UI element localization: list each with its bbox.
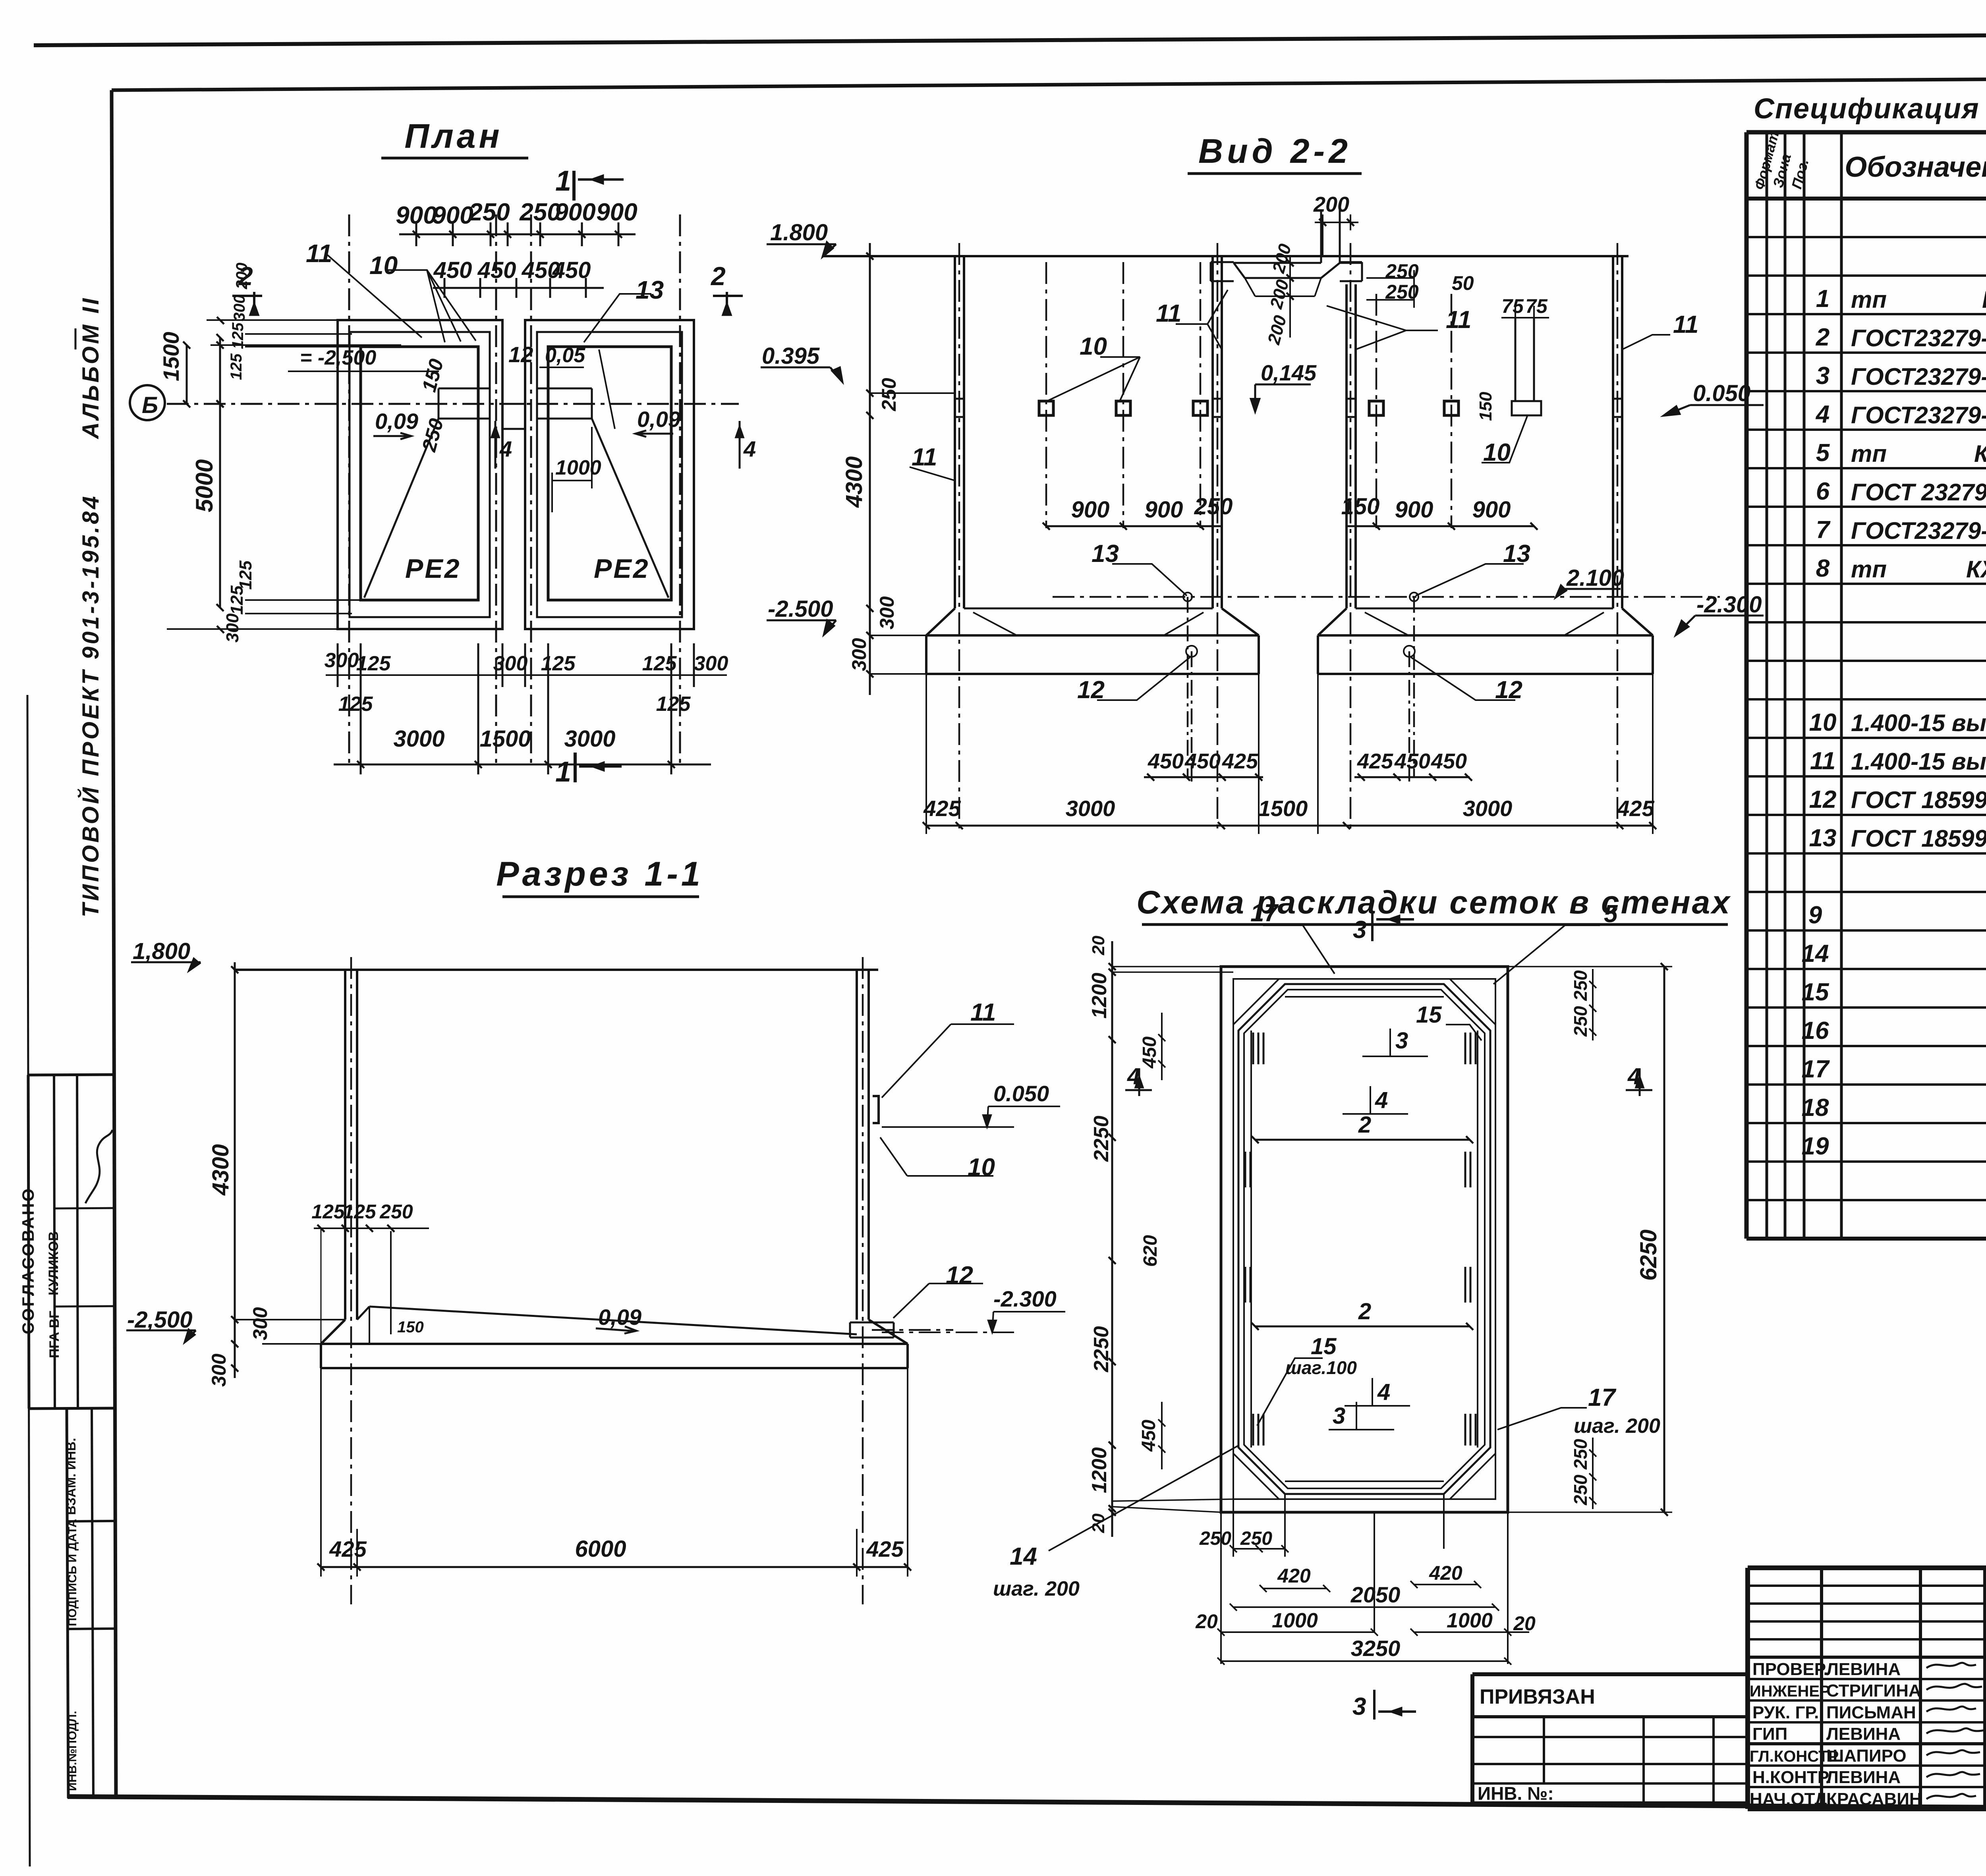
svg-text:2250: 2250 <box>1090 1116 1113 1162</box>
svg-text:Н.КОНТР.: Н.КОНТР. <box>1752 1768 1831 1787</box>
svg-text:КЖИ.С4: КЖИ.С4 <box>1982 286 1986 313</box>
svg-text:420: 420 <box>1277 1565 1311 1587</box>
svg-text:11: 11 <box>912 444 937 471</box>
svg-text:10: 10 <box>1080 333 1107 360</box>
svg-text:11: 11 <box>1673 311 1698 338</box>
svg-text:-2.300: -2.300 <box>1696 592 1762 618</box>
svg-text:620: 620 <box>1140 1235 1161 1267</box>
svg-text:ТИПОВОЙ ПРОЕКТ 901-3-195.84: ТИПОВОЙ ПРОЕКТ 901-3-195.84 <box>77 494 104 917</box>
svg-text:1,800: 1,800 <box>133 938 190 964</box>
svg-text:50: 50 <box>1452 272 1474 294</box>
svg-text:900: 900 <box>554 199 595 226</box>
svg-text:13: 13 <box>636 276 664 304</box>
svg-text:3000: 3000 <box>393 726 444 752</box>
svg-text:0,09: 0,09 <box>637 407 680 432</box>
svg-text:РЕ2: РЕ2 <box>594 554 650 584</box>
svg-text:425: 425 <box>329 1536 367 1561</box>
svg-text:1500: 1500 <box>158 332 184 381</box>
svg-text:900: 900 <box>1395 497 1433 523</box>
svg-text:ПОДПИСЬ И ДАТА: ПОДПИСЬ И ДАТА <box>66 1519 79 1626</box>
svg-text:20: 20 <box>1195 1610 1218 1633</box>
svg-text:ГОСТ23279-78: ГОСТ23279-78 <box>1851 402 1986 428</box>
svg-text:900: 900 <box>1145 497 1183 523</box>
svg-text:5: 5 <box>1816 439 1830 467</box>
svg-text:125: 125 <box>656 693 691 716</box>
svg-text:300: 300 <box>493 652 528 675</box>
svg-text:4: 4 <box>1627 1063 1640 1089</box>
svg-text:425: 425 <box>1222 749 1258 773</box>
svg-text:200: 200 <box>233 262 251 290</box>
svg-text:450: 450 <box>477 257 516 283</box>
svg-text:Вид 2-2: Вид 2-2 <box>1198 132 1352 170</box>
svg-text:20: 20 <box>1089 936 1108 955</box>
svg-text:450: 450 <box>1139 1036 1160 1069</box>
svg-text:450: 450 <box>433 257 472 283</box>
svg-text:ГОСТ 23279-78: ГОСТ 23279-78 <box>1851 479 1986 506</box>
svg-text:1500: 1500 <box>1258 796 1308 821</box>
svg-text:75: 75 <box>1525 295 1548 317</box>
svg-text:1000: 1000 <box>1447 1609 1493 1632</box>
svg-text:Схема раскладки сеток в стена: Схема раскладки сеток в стенах <box>1136 884 1731 921</box>
svg-text:12: 12 <box>946 1262 973 1289</box>
svg-text:300: 300 <box>876 596 898 629</box>
svg-text:-2.300: -2.300 <box>993 1286 1057 1311</box>
svg-text:0,145: 0,145 <box>1261 360 1317 385</box>
svg-text:300: 300 <box>694 652 728 675</box>
svg-text:шаг. 200: шаг. 200 <box>1574 1415 1660 1438</box>
svg-text:10: 10 <box>968 1154 995 1181</box>
svg-text:900: 900 <box>596 199 637 226</box>
svg-text:2: 2 <box>710 261 726 291</box>
svg-text:тп: тп <box>1851 556 1887 583</box>
svg-text:14: 14 <box>1802 940 1829 967</box>
svg-text:425: 425 <box>866 1536 904 1561</box>
svg-text:4: 4 <box>1127 1063 1140 1089</box>
svg-text:ШАПИРО: ШАПИРО <box>1826 1746 1907 1766</box>
svg-text:250: 250 <box>878 378 900 411</box>
svg-text:300: 300 <box>223 613 242 643</box>
svg-text:ПИСЬМАН: ПИСЬМАН <box>1826 1703 1916 1722</box>
svg-text:16: 16 <box>1802 1017 1829 1044</box>
svg-text:НАЧ.ОТД: НАЧ.ОТД <box>1750 1789 1827 1809</box>
svg-text:СОГЛАСОВАНО: СОГЛАСОВАНО <box>19 1187 37 1334</box>
svg-text:300: 300 <box>231 295 248 321</box>
svg-text:4: 4 <box>1815 401 1830 428</box>
svg-text:1: 1 <box>555 756 571 788</box>
svg-text:900: 900 <box>432 202 473 229</box>
svg-text:КЖИ. С2: КЖИ. С2 <box>1974 440 1986 467</box>
svg-text:ГОСТ23279-78: ГОСТ23279-78 <box>1851 363 1986 390</box>
svg-text:6: 6 <box>1816 478 1830 505</box>
svg-text:0.050: 0.050 <box>1693 380 1750 406</box>
svg-text:250: 250 <box>468 199 510 226</box>
svg-text:0,09: 0,09 <box>598 1305 641 1330</box>
svg-text:8: 8 <box>1816 555 1830 582</box>
svg-text:250: 250 <box>1385 260 1419 282</box>
svg-text:ГОСТ23279-78: ГОСТ23279-78 <box>1851 517 1986 544</box>
svg-text:тп: тп <box>1851 440 1887 467</box>
svg-text:Б: Б <box>142 392 158 418</box>
svg-text:250: 250 <box>1194 494 1233 519</box>
svg-text:ГОСТ23279-78: ГОСТ23279-78 <box>1851 325 1986 351</box>
svg-text:15: 15 <box>1416 1002 1442 1028</box>
svg-text:250: 250 <box>1199 1528 1231 1549</box>
svg-text:ЛЕВИНА: ЛЕВИНА <box>1826 1724 1901 1744</box>
svg-text:1: 1 <box>1816 285 1830 313</box>
svg-text:17: 17 <box>1802 1056 1830 1083</box>
svg-text:10: 10 <box>369 251 398 280</box>
svg-text:150: 150 <box>397 1318 424 1336</box>
svg-text:2: 2 <box>1816 324 1830 351</box>
svg-text:10: 10 <box>1809 709 1837 736</box>
svg-text:300: 300 <box>325 649 359 672</box>
svg-text:2: 2 <box>1358 1112 1371 1138</box>
svg-text:7: 7 <box>1816 516 1831 544</box>
svg-text:300: 300 <box>249 1307 271 1340</box>
svg-text:тп: тп <box>1851 286 1887 313</box>
svg-text:КРАСАВИН: КРАСАВИН <box>1826 1789 1922 1809</box>
svg-text:3: 3 <box>1816 362 1830 390</box>
svg-text:250: 250 <box>379 1200 413 1223</box>
svg-text:18: 18 <box>1802 1094 1829 1121</box>
svg-text:3000: 3000 <box>1066 796 1115 821</box>
svg-text:РУК. ГР.: РУК. ГР. <box>1752 1703 1819 1722</box>
svg-text:6250: 6250 <box>1636 1229 1661 1281</box>
svg-text:11: 11 <box>970 999 996 1026</box>
svg-text:АЛЬБОМ II: АЛЬБОМ II <box>78 296 104 440</box>
svg-text:125: 125 <box>229 322 247 349</box>
svg-text:0.050: 0.050 <box>993 1081 1049 1106</box>
svg-text:125: 125 <box>338 693 373 716</box>
svg-text:19: 19 <box>1802 1133 1829 1160</box>
svg-text:12: 12 <box>1495 676 1522 704</box>
svg-text:13: 13 <box>1092 540 1119 567</box>
svg-text:10: 10 <box>1483 439 1511 466</box>
svg-text:Обозначение: Обозначение <box>1845 151 1986 183</box>
svg-text:250: 250 <box>1570 970 1591 1001</box>
svg-text:ЛЕВИНА: ЛЕВИНА <box>1826 1768 1901 1787</box>
svg-text:6000: 6000 <box>575 1536 626 1562</box>
svg-text:-2,500: -2,500 <box>127 1307 192 1333</box>
svg-text:РЕ2: РЕ2 <box>405 554 461 584</box>
svg-text:250: 250 <box>1570 1475 1591 1505</box>
svg-text:Спецификация к бакам хранения: Спецификация к бакам хранения коагулянта… <box>1754 93 1986 125</box>
svg-text:ИНВ.№ПОДЛ.: ИНВ.№ПОДЛ. <box>66 1711 79 1791</box>
svg-text:ГЛ.КОНСТР: ГЛ.КОНСТР <box>1750 1748 1839 1765</box>
svg-text:250: 250 <box>1570 1439 1591 1470</box>
svg-text:2.100: 2.100 <box>1566 565 1624 591</box>
svg-text:4300: 4300 <box>841 456 867 508</box>
svg-text:13: 13 <box>1503 540 1530 567</box>
svg-text:5: 5 <box>1604 900 1618 928</box>
svg-text:900: 900 <box>1472 497 1511 523</box>
svg-text:20: 20 <box>1089 1513 1108 1533</box>
svg-text:1200: 1200 <box>1088 1447 1111 1493</box>
svg-text:150: 150 <box>1476 392 1495 421</box>
svg-text:2250: 2250 <box>1090 1326 1113 1372</box>
svg-text:20: 20 <box>1513 1612 1536 1635</box>
svg-text:425: 425 <box>923 796 961 821</box>
svg-text:1.800: 1.800 <box>770 220 828 245</box>
svg-text:3: 3 <box>1395 1028 1408 1054</box>
svg-text:ЛЕВИНА: ЛЕВИНА <box>1826 1660 1901 1679</box>
svg-text:ПГА ВГ: ПГА ВГ <box>47 1311 62 1358</box>
svg-text:Разрез 1-1: Разрез 1-1 <box>496 855 703 893</box>
svg-text:1500: 1500 <box>479 726 531 752</box>
svg-text:12: 12 <box>508 342 533 367</box>
svg-text:ИНЖЕНЕР: ИНЖЕНЕР <box>1750 1683 1830 1700</box>
svg-text:300: 300 <box>848 638 870 671</box>
svg-text:1.400-15 вып. О: 1.400-15 вып. О <box>1851 710 1986 736</box>
svg-text:900: 900 <box>396 202 437 229</box>
svg-text:= -2,500: = -2,500 <box>300 346 376 369</box>
svg-text:450: 450 <box>1184 749 1221 773</box>
svg-text:СТРИГИНА: СТРИГИНА <box>1826 1681 1921 1700</box>
svg-text:125: 125 <box>311 1200 345 1223</box>
svg-text:шаг. 200: шаг. 200 <box>993 1577 1080 1600</box>
svg-text:4: 4 <box>1375 1087 1388 1113</box>
svg-text:450: 450 <box>1431 749 1467 773</box>
svg-text:ПРИВЯЗАН: ПРИВЯЗАН <box>1480 1685 1595 1708</box>
svg-text:3: 3 <box>1353 916 1366 944</box>
svg-text:450: 450 <box>1138 1420 1159 1452</box>
svg-text:250: 250 <box>1570 1006 1591 1037</box>
svg-text:425: 425 <box>1617 796 1654 821</box>
svg-text:11: 11 <box>1810 747 1835 775</box>
svg-text:11: 11 <box>1156 300 1181 327</box>
svg-text:3250: 3250 <box>1351 1636 1401 1661</box>
svg-text:125: 125 <box>356 652 391 675</box>
svg-text:420: 420 <box>1429 1562 1462 1584</box>
svg-text:450: 450 <box>552 257 591 283</box>
svg-text:12: 12 <box>1809 786 1837 813</box>
svg-text:4300: 4300 <box>208 1144 234 1196</box>
svg-text:1.400-15 вып. О: 1.400-15 вып. О <box>1851 748 1986 775</box>
svg-text:125: 125 <box>642 652 677 675</box>
svg-text:1200: 1200 <box>1088 973 1111 1019</box>
svg-text:ИНВ. №:: ИНВ. №: <box>1478 1783 1554 1804</box>
svg-text:0,05: 0,05 <box>545 344 585 367</box>
svg-text:0.395: 0.395 <box>762 343 820 369</box>
svg-text:4: 4 <box>743 436 756 461</box>
svg-text:3: 3 <box>1352 1693 1366 1720</box>
svg-text:125: 125 <box>228 353 245 380</box>
svg-text:125: 125 <box>236 560 255 590</box>
svg-text:15: 15 <box>1311 1334 1337 1359</box>
svg-text:шаг.100: шаг.100 <box>1285 1357 1357 1378</box>
svg-text:КЖН. С3: КЖН. С3 <box>1966 556 1986 583</box>
svg-text:0,09: 0,09 <box>375 409 418 434</box>
svg-text:3: 3 <box>1333 1403 1345 1429</box>
svg-text:4: 4 <box>499 436 512 461</box>
svg-text:-2.500: -2.500 <box>768 596 833 622</box>
svg-text:150: 150 <box>1341 494 1380 519</box>
svg-text:ПРОВЕР.: ПРОВЕР. <box>1752 1660 1828 1679</box>
svg-text:13: 13 <box>1809 824 1837 852</box>
svg-text:11: 11 <box>306 239 332 268</box>
svg-text:4: 4 <box>1377 1379 1390 1405</box>
svg-text:15: 15 <box>1802 979 1830 1006</box>
svg-text:250: 250 <box>1240 1528 1272 1549</box>
svg-text:250: 250 <box>1385 281 1419 303</box>
svg-text:125: 125 <box>343 1200 377 1223</box>
svg-text:3000: 3000 <box>564 726 615 752</box>
svg-text:ВЗАМ. ИНВ.: ВЗАМ. ИНВ. <box>64 1438 78 1515</box>
svg-text:425: 425 <box>1357 749 1393 773</box>
svg-text:КУЛИКОВ: КУЛИКОВ <box>46 1231 61 1296</box>
svg-text:900: 900 <box>1071 497 1110 523</box>
svg-text:450: 450 <box>1148 749 1184 773</box>
svg-text:ГОСТ 18599-73: ГОСТ 18599-73 <box>1851 787 1986 813</box>
svg-text:2050: 2050 <box>1350 1582 1401 1607</box>
svg-text:3000: 3000 <box>1463 796 1513 821</box>
svg-text:12: 12 <box>1077 676 1105 704</box>
svg-text:1: 1 <box>555 165 571 197</box>
svg-text:75: 75 <box>1501 295 1524 317</box>
svg-text:125: 125 <box>541 652 576 675</box>
svg-text:1000: 1000 <box>555 456 601 479</box>
svg-text:9: 9 <box>1808 901 1822 929</box>
svg-text:14: 14 <box>1010 1543 1037 1570</box>
svg-text:11: 11 <box>1446 306 1471 334</box>
svg-text:ГИП: ГИП <box>1752 1724 1787 1744</box>
svg-text:17: 17 <box>1588 1384 1616 1411</box>
svg-text:300: 300 <box>208 1353 230 1387</box>
svg-text:1000: 1000 <box>1272 1609 1318 1632</box>
svg-text:План: План <box>404 117 502 155</box>
svg-text:200: 200 <box>1313 193 1349 216</box>
svg-text:2: 2 <box>1358 1299 1371 1324</box>
svg-text:5000: 5000 <box>191 459 218 512</box>
svg-text:ГОСТ 18599-73: ГОСТ 18599-73 <box>1851 825 1986 852</box>
svg-text:450: 450 <box>1394 749 1430 773</box>
svg-text:17: 17 <box>1250 899 1279 927</box>
